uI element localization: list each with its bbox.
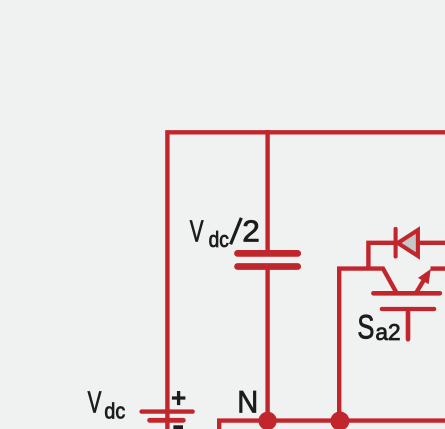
svg-text:dc: dc: [104, 399, 125, 424]
svg-text:V: V: [88, 384, 102, 419]
svg-text:N: N: [237, 384, 258, 420]
svg-text:2: 2: [242, 214, 260, 249]
svg-text:a2: a2: [375, 319, 400, 345]
svg-text:S: S: [357, 308, 374, 346]
svg-text:V: V: [190, 214, 204, 249]
svg-text:dc: dc: [209, 227, 229, 252]
